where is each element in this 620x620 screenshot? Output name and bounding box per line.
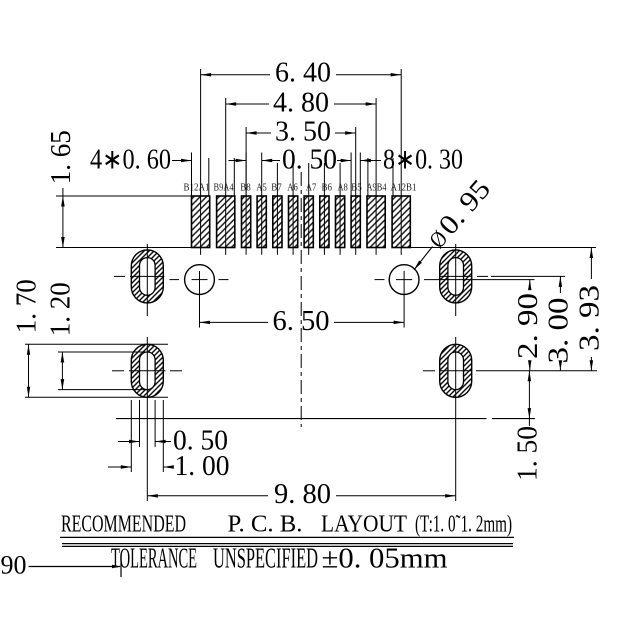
centre line of connector	[300, 172, 302, 427]
wire pin centreline stubs above pads	[209, 158, 393, 196]
pad A12B1	[392, 196, 410, 248]
dimension 0.50 slot width	[118, 426, 228, 457]
pad B8	[242, 196, 251, 248]
note tolerance unspecified	[111, 544, 448, 575]
svg-text:4∗0. 60: 4∗0. 60	[90, 145, 171, 176]
svg-text:2. 90: 2. 90	[513, 293, 544, 359]
slotted shell hole lower left	[131, 344, 163, 397]
pad B12A1	[192, 196, 210, 248]
svg-text:A9B4: A9B4	[367, 182, 387, 194]
svg-text:A7: A7	[306, 182, 317, 194]
dimension 8*0.30 narrow pad width	[337, 145, 463, 197]
svg-text:B6: B6	[322, 182, 333, 194]
svg-text:TOLERANCE: TOLERANCE	[111, 544, 197, 575]
pad A9B4	[367, 196, 385, 248]
svg-text:3. 50: 3. 50	[275, 117, 331, 148]
pad A7	[304, 196, 313, 248]
svg-text:B7: B7	[271, 182, 282, 194]
dimension 6.50 drill hole span	[200, 306, 405, 337]
svg-text:4. 80: 4. 80	[273, 88, 329, 119]
pad B7	[273, 196, 282, 248]
dimension 4.80 inner wide pads span	[226, 88, 376, 197]
dimension 2.90 hole to slot	[513, 280, 544, 371]
drill hole left Ø0.95	[185, 265, 215, 295]
wire shell rear reference line	[116, 418, 535, 420]
dimension 0.50 pad pitch	[229, 145, 338, 197]
dimension Ø0.95 drill diameter	[414, 174, 497, 270]
slotted shell hole upper right	[440, 250, 472, 303]
svg-text:A6: A6	[287, 182, 298, 194]
dimension 3.93 pad to slot	[575, 248, 606, 371]
svg-text:A8: A8	[337, 182, 348, 194]
svg-text:8∗0. 30: 8∗0. 30	[383, 145, 463, 176]
svg-text:LAYOUT: LAYOUT	[321, 511, 407, 537]
pad B6	[320, 196, 329, 248]
svg-text:0. 50: 0. 50	[282, 145, 337, 176]
double rule	[62, 544, 513, 547]
svg-text:3. 00: 3. 00	[544, 298, 575, 364]
svg-text:1. 65: 1. 65	[46, 130, 77, 184]
wire right circle centrelines	[375, 271, 413, 328]
svg-text:B12A1: B12A1	[184, 182, 210, 194]
wire slot extension lines below	[131, 400, 163, 472]
dimension 1.70 slot outer length	[12, 279, 168, 397]
wire 3.00 extension line	[491, 275, 565, 277]
dimension 1.65 pad length	[46, 130, 191, 247]
svg-text:±0. 05mm: ±0. 05mm	[322, 544, 448, 575]
svg-text:P. C. B.: P. C. B.	[228, 511, 303, 537]
dimension 6.40 pad row span	[201, 58, 402, 197]
dimension 1.20 slot inner length	[46, 282, 150, 389]
svg-text:3. 93: 3. 93	[575, 285, 606, 351]
svg-text:1. 20: 1. 20	[46, 282, 77, 336]
rule under layout note	[60, 536, 514, 538]
wire left circle centrelines	[170, 271, 229, 328]
svg-text:B9A4: B9A4	[214, 182, 234, 194]
dimension 9.80 slot span	[147, 479, 455, 510]
wire 2.90 extension line	[424, 279, 535, 281]
svg-text:6. 40: 6. 40	[275, 58, 331, 89]
svg-text:UNSPECIFIED: UNSPECIFIED	[213, 544, 318, 575]
dimension 3.00 slot to slot	[544, 276, 575, 370]
svg-text:(T:1. 0˜1. 2mm): (T:1. 0˜1. 2mm)	[415, 511, 512, 537]
drill hole right Ø0.95	[389, 265, 419, 295]
pad A6	[289, 196, 298, 248]
slotted shell hole upper left	[131, 250, 163, 303]
dimension 4*0.60 wide pad width	[90, 145, 192, 197]
wire lower-right oval centrelines	[423, 337, 597, 501]
svg-text:1. 00: 1. 00	[175, 451, 230, 482]
pad B9A4	[217, 196, 235, 248]
wire upper-right oval centrelines	[440, 244, 489, 316]
dimension 1.00 slot outer width	[108, 451, 230, 482]
svg-text:1. 50: 1. 50	[513, 426, 544, 481]
note recommended PCB layout	[61, 511, 512, 537]
wire lower-left oval centrelines	[112, 337, 182, 501]
dimension 3.50 narrow pads span	[246, 117, 356, 197]
slotted shell hole lower right	[440, 344, 472, 397]
wire pad centrelines through pads	[201, 196, 402, 255]
label 90 with leader	[1, 551, 122, 580]
svg-text:9. 80: 9. 80	[274, 479, 331, 510]
pad A5	[257, 196, 266, 248]
svg-text:RECOMMENDED: RECOMMENDED	[61, 511, 186, 537]
svg-text:90: 90	[1, 551, 27, 580]
wire upper-left oval centrelines	[114, 244, 165, 316]
svg-text:1. 70: 1. 70	[12, 279, 43, 333]
wire pad bottom extension line	[411, 247, 597, 249]
pad number labels B12A1..A12B1	[184, 182, 417, 194]
pad B5	[351, 196, 360, 248]
pad A8	[336, 196, 345, 248]
dimension 1.50 slot to shell line	[513, 371, 544, 481]
svg-text:A12B1: A12B1	[391, 182, 417, 194]
